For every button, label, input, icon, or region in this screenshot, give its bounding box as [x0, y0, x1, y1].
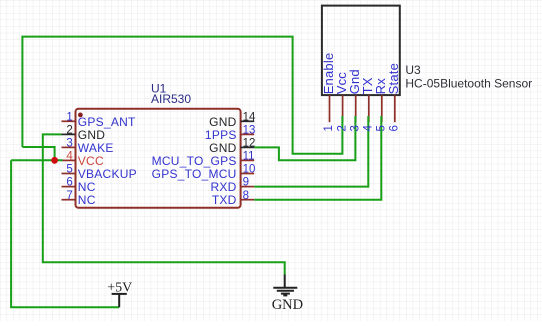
svg-text:GND: GND [78, 128, 106, 142]
svg-text:13: 13 [243, 125, 256, 137]
svg-text:4: 4 [66, 151, 73, 163]
svg-text:3: 3 [349, 125, 361, 131]
svg-text:1: 1 [66, 111, 72, 123]
svg-text:NC: NC [78, 193, 96, 207]
svg-text:GND: GND [209, 141, 237, 155]
svg-text:6: 6 [66, 177, 72, 189]
svg-text:GPS_TO_MCU: GPS_TO_MCU [152, 167, 237, 181]
svg-text:VBACKUP: VBACKUP [78, 167, 137, 181]
svg-text:6: 6 [389, 125, 401, 131]
svg-text:NC: NC [78, 180, 96, 194]
svg-text:3: 3 [66, 138, 72, 150]
svg-text:12: 12 [243, 138, 256, 150]
svg-text:2: 2 [336, 125, 348, 131]
svg-text:2: 2 [66, 125, 72, 137]
svg-text:VCC: VCC [78, 154, 104, 168]
svg-text:1: 1 [323, 125, 335, 131]
svg-text:State: State [386, 63, 401, 94]
svg-text:9: 9 [243, 177, 249, 189]
svg-text:5: 5 [376, 125, 388, 131]
svg-text:8: 8 [243, 190, 249, 202]
svg-text:GND: GND [272, 297, 303, 313]
svg-text:4: 4 [363, 125, 375, 132]
svg-text:GPS_ANT: GPS_ANT [78, 115, 136, 129]
svg-text:7: 7 [66, 190, 72, 202]
svg-text:1PPS: 1PPS [205, 128, 237, 142]
svg-text:HC-05Bluetooth Sensor: HC-05Bluetooth Sensor [405, 76, 532, 90]
svg-text:GND: GND [209, 115, 237, 129]
svg-text:5: 5 [66, 164, 72, 176]
svg-text:MCU_TO_GPS: MCU_TO_GPS [152, 154, 237, 168]
svg-text:AIR530: AIR530 [151, 92, 191, 106]
svg-text:WAKE: WAKE [78, 141, 114, 155]
svg-text:RXD: RXD [211, 180, 237, 194]
svg-text:TXD: TXD [212, 193, 237, 207]
svg-text:14: 14 [243, 111, 256, 123]
svg-text:10: 10 [243, 164, 256, 176]
svg-text:11: 11 [243, 151, 255, 163]
svg-text:+5V: +5V [107, 281, 132, 296]
svg-text:U3: U3 [405, 63, 421, 77]
